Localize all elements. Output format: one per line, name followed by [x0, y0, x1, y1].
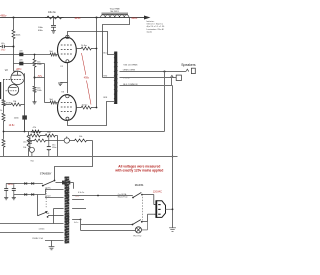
transformer T2-PT heater winding 2 — [68, 214, 70, 222]
jack J2 tip — [171, 75, 174, 77]
wire PT primary lead 1 — [0, 223, 64, 225]
resistor R-gridleak V3 — [33, 86, 36, 93]
wire plate node vertical — [13, 40, 15, 64]
wire V3 screen lead — [76, 107, 80, 109]
svg-text:120VAC 1.5A: 120VAC 1.5A — [32, 237, 44, 240]
wire bus stub right — [173, 156, 178, 158]
svg-text:120VAC: 120VAC — [153, 190, 162, 193]
wire PT left tap 4 — [45, 240, 64, 242]
svg-text:410v: 410v — [131, 16, 138, 20]
svg-text:Lamination: 22m EI: Lamination: 22m EI — [147, 28, 165, 31]
resistor R-grid-stopper V3 — [49, 101, 57, 104]
wire NFB cap drop — [24, 119, 26, 132]
thermistor block — [62, 181, 70, 185]
label PT tap3 — [47, 213, 49, 215]
label -57v — [37, 75, 42, 78]
label 100n — [14, 118, 20, 120]
jack J2 body — [176, 75, 181, 80]
diode D3 — [24, 193, 27, 196]
label 1k 5w lower — [82, 104, 88, 106]
wire left column low — [3, 122, 5, 138]
wire V2 left vertical — [3, 79, 5, 99]
svg-text:47k: 47k — [33, 127, 36, 129]
diode D1 — [24, 182, 27, 185]
jack J1 body — [191, 68, 195, 73]
wire PT left tap 3 — [48, 215, 64, 217]
svg-text:1k 5w: 1k 5w — [81, 45, 87, 47]
switch SW-mains pole 2 — [133, 220, 141, 225]
label 8 ohm small — [123, 77, 130, 79]
wire choke output down — [103, 18, 130, 78]
svg-text:Speakers: Speakers — [181, 63, 196, 67]
svg-text:100k: 100k — [37, 64, 41, 66]
node common-bus junction — [172, 156, 174, 158]
label 22n lower — [19, 60, 23, 62]
wire mains sw to IEC — [142, 195, 154, 205]
capacitor C-100n coupling — [22, 115, 27, 119]
wire to PT HV — [70, 183, 73, 189]
label on-off note — [118, 193, 128, 199]
wire screen V3 to bus — [93, 107, 97, 109]
svg-text:PILOT 6v: PILOT 6v — [133, 236, 141, 238]
svg-text:415v: 415v — [75, 16, 82, 20]
wire PT tap 5v — [72, 199, 84, 201]
label divider — [23, 147, 26, 149]
label T20k — [47, 132, 51, 134]
annotation red line upper — [82, 53, 86, 75]
svg-text:wht/brn: wht/brn — [39, 228, 45, 231]
capacitor C-bias-2 — [12, 184, 16, 195]
svg-text:1M: 1M — [13, 101, 16, 103]
svg-text:1k: 1k — [0, 110, 2, 112]
capacitor C-22n lower — [19, 62, 23, 66]
label 470R — [6, 102, 11, 104]
svg-text:4(m 2.6 x 1.1 x 1 36: 4(m 2.6 x 1.1 x 1 36 — [147, 26, 166, 28]
wire PT primary lead 2 — [0, 232, 64, 234]
label grid stopper V3 — [50, 99, 54, 101]
node mains sw in — [132, 197, 134, 199]
ground G4 cathodes — [58, 83, 63, 86]
wire screen bus vertical — [96, 18, 98, 108]
switch linkage dashed — [142, 197, 144, 221]
wire NFB vertical — [164, 72, 166, 132]
wire PT tap mid — [72, 208, 86, 210]
transformer T2-PT left winding 3 — [64, 227, 66, 242]
label V2 — [5, 69, 9, 72]
svg-text:6.3v 2a: 6.3v 2a — [78, 192, 85, 194]
resistor R-100k plate — [12, 29, 15, 39]
wire heater jog down — [80, 220, 82, 231]
transformer T2-PT core — [65, 177, 70, 245]
capacitor C-100n-630v — [51, 25, 56, 30]
ground G6 bias1 — [4, 198, 8, 200]
label 410v — [131, 16, 138, 20]
node NFB V2 junction — [24, 131, 26, 133]
label 100n 630v — [38, 27, 44, 32]
svg-text:V33 1/4 OHMS: V33 1/4 OHMS — [123, 64, 138, 66]
node mains sw2 out — [141, 221, 143, 223]
node standby throw — [42, 185, 44, 187]
label 100k — [16, 35, 22, 37]
svg-text:495v: 495v — [84, 77, 90, 80]
wire V2 right vertical — [24, 73, 26, 131]
wire left column mid — [3, 107, 5, 113]
label 287v — [16, 68, 22, 71]
node mains sw2 in — [132, 224, 134, 226]
wire screen V1 to bus — [93, 48, 97, 50]
label PT tap2 — [45, 196, 51, 198]
wire bias tap right — [35, 77, 45, 79]
wire divider bottom — [28, 150, 30, 157]
label choke value — [109, 7, 120, 13]
wire PT heater tap long — [72, 195, 133, 197]
label NFB resistor — [33, 127, 36, 129]
switch SW-standby — [43, 181, 55, 186]
wire selector to primary — [54, 209, 64, 224]
label presence 1k — [38, 136, 40, 138]
tube V3 envelope — [58, 94, 77, 120]
svg-text:blk: blk — [47, 213, 49, 215]
node screen bus junction 2 — [96, 107, 98, 109]
wire standby lower right — [56, 182, 63, 184]
label 22u — [23, 142, 26, 144]
svg-text:100k: 100k — [37, 90, 41, 92]
label 16 ohm tap — [123, 64, 138, 66]
resistor R-gridleak V1 — [33, 58, 36, 68]
label 120VAC — [153, 190, 162, 193]
switch SW-mains pole 1 — [133, 193, 141, 198]
wire 1M left — [4, 104, 10, 106]
label V1 — [60, 66, 63, 68]
diode D4 — [31, 193, 34, 196]
label red input v — [1, 50, 7, 52]
resistor R-grid-stopper V1 — [49, 53, 57, 56]
node mains sw out — [141, 194, 143, 196]
node plate-cap junction — [13, 46, 15, 48]
label grid stopper V1 — [50, 51, 54, 53]
node screen bus junction 1 — [96, 48, 98, 50]
transformer T2-PT heater winding — [67, 189, 69, 204]
wire bias column bottom — [34, 93, 36, 102]
label gridleak V1 — [37, 61, 41, 66]
wire sw2 to IEC — [142, 214, 154, 221]
label pilot — [133, 236, 141, 238]
resistor R-presence 1k — [33, 139, 47, 142]
label Speakers — [181, 63, 196, 67]
wire 1M right — [22, 104, 25, 106]
svg-text:with exactly 120v mains applie: with exactly 120v mains applied — [114, 169, 163, 173]
capacitor C-47u-450v — [47, 136, 51, 157]
wire PT heater lower — [72, 219, 81, 224]
capacitor C-22u — [28, 136, 32, 144]
transformer T1-OT core — [114, 52, 117, 105]
wire V2 plate up — [14, 64, 18, 76]
resistor R-470R cathode — [2, 99, 5, 107]
wire PT bottom ground stub — [51, 241, 53, 247]
ground G5 chassis — [169, 228, 176, 232]
svg-text:wht/blu: wht/blu — [45, 187, 51, 190]
tube V1 envelope — [58, 35, 77, 63]
label STANDBY — [40, 172, 52, 175]
wire V1 screen lead — [76, 48, 80, 50]
wire IEC earth — [166, 208, 174, 210]
transformer T1-OT secondary winding — [116, 63, 118, 91]
svg-text:5H 2013: 5H 2013 — [110, 11, 119, 13]
wire cathode link — [67, 63, 69, 93]
svg-text:Triad 7MB: Triad 7MB — [109, 7, 120, 10]
label 470R 5w — [31, 132, 39, 134]
input jack edge mark — [0, 82, 2, 99]
svg-text:287v: 287v — [16, 68, 22, 71]
wire PT left tap 2 — [45, 197, 64, 199]
wire to mains switch lower — [81, 224, 133, 226]
ground G1 under cap — [51, 31, 56, 33]
label 47n — [1, 43, 4, 45]
tube V2 triode B — [6, 85, 19, 96]
svg-text:Mains Fuse: Mains Fuse — [118, 197, 128, 199]
wire V3 grid feed — [14, 63, 45, 65]
svg-text:10k 2w: 10k 2w — [48, 11, 56, 14]
svg-text:stack): stack) — [147, 31, 153, 34]
transformer T2-PT left winding 2 — [64, 212, 66, 225]
wire divider top — [28, 132, 30, 135]
wire bias diode row 1 — [17, 183, 43, 185]
resistor R-screen V1 1k5w — [80, 47, 93, 50]
svg-text:10k: 10k — [23, 147, 26, 149]
wire NFB horizontal — [4, 131, 165, 133]
svg-text:MAINS: MAINS — [135, 183, 144, 187]
svg-text:47n: 47n — [1, 43, 4, 45]
node rail junction A — [13, 17, 15, 19]
lamp pilot — [135, 227, 141, 233]
transformer T2-PT primary winding — [64, 178, 66, 199]
ground G7 bias2 — [12, 194, 16, 200]
wire V1 grid feed — [0, 54, 49, 56]
label 1k 5w upper — [81, 45, 87, 47]
label heater text — [78, 192, 85, 194]
resistor R-divider — [27, 134, 30, 149]
label OT lead RED — [103, 76, 107, 78]
svg-text:T20k: T20k — [47, 132, 51, 134]
transformer T1-OT primary winding — [114, 53, 116, 103]
wire to pilot lamp — [81, 230, 136, 232]
wire V3 plate route — [68, 102, 115, 126]
label 495v — [84, 77, 90, 80]
wire plate supply drop — [13, 18, 15, 30]
wire V1 plate route — [68, 32, 115, 55]
node jack1 NFB tap — [164, 71, 166, 73]
resistor R-10k-2w in rail — [45, 16, 64, 19]
resistor R-NFB 47k — [31, 130, 42, 133]
label inductor note — [147, 20, 166, 34]
svg-text:Ohms 6 r: Nuw 6 x: Ohms 6 r: Nuw 6 x — [147, 24, 164, 26]
label 47u 450v — [52, 144, 56, 149]
wire secondary tap common — [120, 85, 172, 87]
svg-text:10k: 10k — [79, 136, 82, 138]
label 1M — [13, 101, 16, 103]
wire OT center tap — [103, 77, 115, 79]
label tail — [0, 110, 2, 112]
svg-text:6v3 a: 6v3 a — [74, 222, 78, 224]
label 22n upper — [19, 51, 23, 53]
label 8 ohm tap — [123, 84, 138, 86]
label bus note — [31, 160, 35, 162]
label 6v3 red — [75, 196, 79, 198]
resistor R-470R-5w filter — [29, 134, 42, 137]
annotation red line lower — [87, 81, 92, 105]
resistor R-T20k filter — [44, 134, 56, 137]
svg-text:OHM 4 OHM: OHM 4 OHM — [123, 70, 135, 72]
wire arrow to preamp supply — [144, 16, 151, 20]
label 415v — [75, 16, 82, 20]
ground G2 bias column — [32, 102, 36, 104]
wire filter row — [29, 135, 58, 137]
electrolytic can symbol — [29, 143, 34, 156]
label PT primary lead1 — [39, 228, 45, 231]
label PT primary lead2 — [32, 237, 44, 240]
wire bias column mid — [34, 68, 36, 86]
label 4 ohm tap — [123, 70, 135, 72]
label note line2 — [114, 169, 163, 173]
label MAINS — [135, 183, 144, 187]
resistor R-screen V3 1k5w — [80, 106, 93, 109]
node bias node — [34, 77, 36, 79]
capacitor C-input 47n — [0, 45, 14, 48]
wire bias cap feed — [6, 183, 17, 185]
wire B+ rail — [0, 17, 145, 19]
label V3 — [61, 91, 64, 93]
ground G8 PT — [49, 247, 55, 250]
node B+ rectifier output label 465v — [0, 14, 7, 18]
svg-text:470R 5W: 470R 5W — [31, 132, 39, 134]
label 465v supply — [8, 183, 14, 186]
jack J1 tip — [186, 69, 189, 71]
svg-text:100n: 100n — [14, 118, 20, 120]
wire cap stub — [53, 18, 55, 26]
resistor R-left-low — [2, 138, 5, 148]
wire PT left tap 1 — [45, 189, 64, 191]
wire left column to bus — [3, 148, 5, 157]
ground bus — [0, 156, 173, 158]
wire bias diode row 2 — [14, 190, 46, 195]
tube V3 electrodes — [61, 103, 73, 112]
svg-text:450v: 450v — [52, 147, 56, 149]
svg-text:10.8v: 10.8v — [9, 124, 16, 127]
resistor R-tail — [2, 112, 5, 122]
node NFB left — [3, 131, 5, 133]
diode D2 — [31, 182, 34, 185]
wire selector feed — [37, 195, 39, 216]
wire grid link vertical — [44, 64, 46, 103]
node standby top — [54, 180, 56, 182]
selector position dots — [46, 188, 47, 207]
inductor L1 choke — [101, 13, 130, 17]
connector IEC inlet — [156, 200, 165, 218]
tube V1 electrodes — [61, 45, 73, 54]
switch SW-voltage selector — [38, 211, 49, 218]
svg-text:On-Off 1A: On-Off 1A — [118, 193, 127, 196]
capacitor C-22n upper — [19, 53, 23, 57]
potentiometer VR1 — [64, 136, 69, 143]
wire lamp right — [142, 222, 148, 230]
wire bias column top — [34, 54, 36, 58]
wire secondary tap 16ohm — [120, 71, 186, 73]
svg-text:Inductor:: Inductor: — [147, 20, 155, 23]
wire secondary tap 4ohm — [120, 77, 177, 79]
wire V3 grid wire — [45, 102, 50, 104]
label PT tap1 — [45, 187, 51, 190]
resistor R-10k pot row — [73, 139, 88, 142]
connector IEC pins — [154, 205, 161, 215]
node rail junction screens — [96, 17, 98, 19]
svg-text:1k 5w: 1k 5w — [82, 104, 88, 106]
label OT lead BRN — [103, 97, 107, 99]
tube V2 triode A — [3, 71, 24, 84]
wire pot row — [29, 140, 93, 142]
label 10.8v — [9, 124, 16, 127]
label gridleak V3 — [37, 87, 41, 92]
capacitor C-bias-1 — [4, 184, 8, 198]
svg-text:STANDBY: STANDBY — [40, 172, 52, 175]
svg-text:22u: 22u — [23, 142, 26, 144]
label note line1 — [118, 165, 160, 169]
resistor R-1M — [10, 103, 22, 106]
wire pot to standby route — [55, 141, 93, 181]
wire speaker common down — [172, 78, 173, 228]
label OT lead BLU — [103, 53, 107, 55]
wire filter right end — [57, 136, 59, 157]
label pot row 10k — [79, 136, 82, 138]
label 10k 2w — [48, 11, 56, 14]
wire cathode ground tap — [60, 82, 67, 84]
